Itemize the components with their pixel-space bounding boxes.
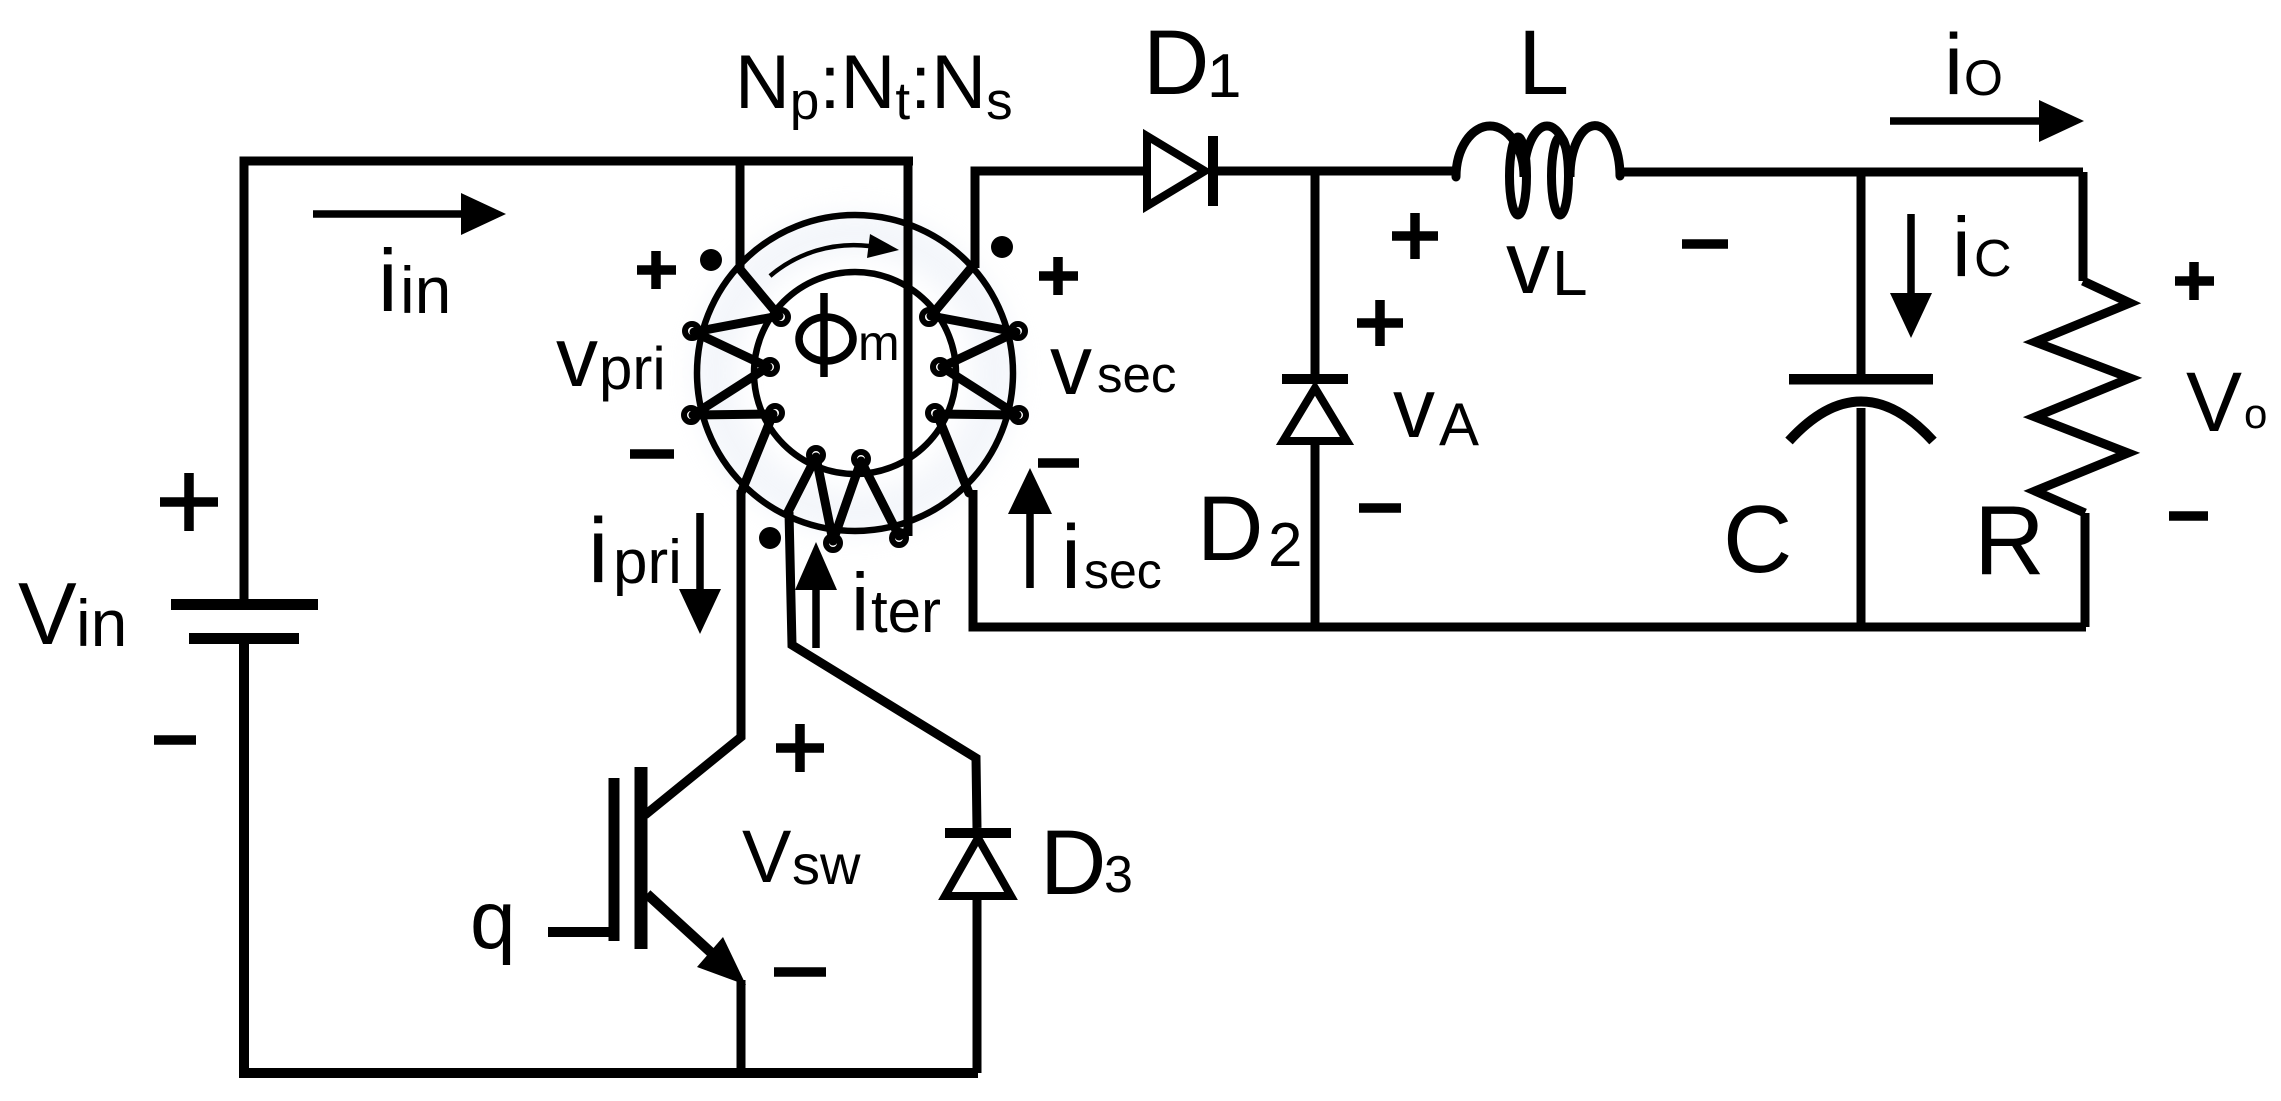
secondary winding: [922, 268, 1026, 493]
svg-text:q: q: [470, 875, 516, 966]
svg-text:V: V: [18, 564, 77, 663]
wire: primary winding down to IGBT collector: [645, 490, 741, 815]
svg-text:A: A: [1439, 391, 1479, 458]
svg-text:L: L: [1518, 12, 1569, 114]
svg-text:i: i: [851, 557, 869, 648]
IGBT body bar: [635, 767, 648, 949]
svg-text:V: V: [742, 815, 792, 898]
diode D1: [1147, 136, 1218, 206]
label v_A: [1393, 361, 1479, 458]
svg-text:Np:Nt:Ns: Np:Nt:Ns: [735, 40, 1013, 131]
wire: secondary top to rail corner: [975, 171, 1147, 268]
svg-text:D: D: [1040, 812, 1106, 914]
svg-text:i: i: [1944, 17, 1963, 113]
minus sign v_A: [1359, 503, 1401, 513]
arrow i_C: [1890, 214, 1932, 338]
diode D2: [1282, 171, 1348, 627]
plus sign V_sw: [776, 724, 824, 772]
svg-text:in: in: [400, 253, 451, 327]
dot primary polarity: [700, 249, 722, 271]
minus sign primary: [630, 449, 674, 459]
svg-text:V: V: [2186, 355, 2242, 449]
svg-text:sec: sec: [1097, 346, 1176, 403]
wire: Vin positive terminal up and top rail to transformer: [244, 161, 913, 604]
dot tertiary polarity: [759, 527, 781, 549]
plus sign battery: [160, 473, 218, 531]
label D1: [1143, 12, 1241, 114]
arrow i_pri: [679, 513, 721, 634]
svg-text:m: m: [858, 315, 900, 371]
inductor L: [1456, 126, 1620, 215]
minus sign V_sw: [774, 967, 826, 977]
label v_sec: [1050, 318, 1176, 412]
toroid glow: [715, 233, 995, 513]
svg-text:v: v: [1050, 318, 1092, 412]
svg-text:C: C: [1723, 486, 1792, 593]
wire: secondary bottom and output bottom rail: [973, 490, 2086, 627]
svg-text:D: D: [1197, 478, 1263, 580]
svg-text:i: i: [1952, 200, 1971, 294]
diode D3: [945, 828, 1011, 1073]
IGBT emitter with arrow: [647, 894, 746, 1073]
transformer core inner circle: [754, 272, 956, 474]
label v_pri: [556, 310, 666, 404]
label V_o: [2186, 355, 2267, 449]
minus sign V_o: [2169, 511, 2208, 521]
IGBT q gate lead: [548, 927, 610, 937]
label D2: [1197, 478, 1302, 580]
svg-text:1: 1: [1207, 42, 1241, 111]
svg-text:R: R: [1974, 485, 2045, 595]
plus sign v_L: [1392, 213, 1438, 259]
label i_ter: [851, 557, 941, 648]
plus sign v_A: [1357, 300, 1403, 346]
label i_sec: [1061, 508, 1162, 608]
label i_in: [378, 231, 451, 330]
label i_C: [1952, 200, 2012, 294]
dot secondary polarity: [991, 236, 1013, 258]
minus sign secondary: [1038, 458, 1079, 468]
label i_O: [1944, 17, 2003, 113]
svg-text:2: 2: [1268, 511, 1302, 580]
primary winding: [684, 268, 788, 493]
plus sign primary: [637, 251, 676, 289]
arrow i_in: [313, 193, 506, 235]
svg-text:in: in: [76, 586, 127, 660]
label i_pri: [588, 500, 682, 602]
svg-text:3: 3: [1104, 846, 1133, 904]
tertiary winding: [788, 448, 908, 550]
svg-text:o: o: [2244, 390, 2267, 437]
minus sign v_L: [1682, 239, 1728, 249]
svg-text:pri: pri: [613, 528, 682, 597]
wire: Vin negative down and bottom rail to D3: [244, 644, 978, 1073]
plus sign V_o: [2175, 262, 2214, 300]
wire: center (tertiary) from top rail through core: [904, 157, 913, 536]
svg-text:L: L: [1552, 237, 1588, 309]
arrow i_O: [1890, 100, 2084, 142]
svg-text:O: O: [1964, 50, 2003, 106]
label v_L: [1506, 213, 1588, 312]
svg-text:v: v: [1506, 213, 1550, 312]
wire: tertiary winding down to D3: [789, 512, 977, 828]
svg-text:pri: pri: [599, 335, 666, 402]
svg-text:i: i: [378, 231, 398, 330]
phi symbol: [799, 293, 853, 377]
capacitor C: [1789, 172, 1933, 627]
label D3: [1040, 812, 1133, 914]
minus sign battery: [154, 735, 196, 745]
wire: D1 cathode to inductor: [1216, 167, 1454, 176]
svg-text:ter: ter: [871, 578, 941, 645]
label Vin: [18, 564, 127, 663]
svg-text:i: i: [588, 500, 608, 602]
flux arrow phi_m: [770, 234, 899, 276]
svg-text:sec: sec: [1084, 543, 1162, 599]
resistor R: [2035, 172, 2130, 627]
arrow i_ter: [795, 542, 837, 648]
svg-text:D: D: [1143, 12, 1209, 114]
svg-text:sw: sw: [792, 833, 861, 896]
label V_sw: [742, 815, 861, 898]
transformer core outer circle: [697, 215, 1013, 531]
plus sign secondary: [1039, 257, 1078, 295]
wire: inductor to output top corner: [1620, 168, 2083, 177]
IGBT gate bar: [609, 778, 620, 941]
battery Vin plates: [171, 599, 318, 644]
arrow i_sec: [1008, 468, 1052, 588]
wire: top rail to primary winding: [736, 157, 745, 272]
svg-text:C: C: [1974, 230, 2012, 288]
svg-text:v: v: [556, 310, 598, 404]
svg-text:i: i: [1061, 508, 1081, 608]
svg-text:v: v: [1393, 361, 1435, 455]
